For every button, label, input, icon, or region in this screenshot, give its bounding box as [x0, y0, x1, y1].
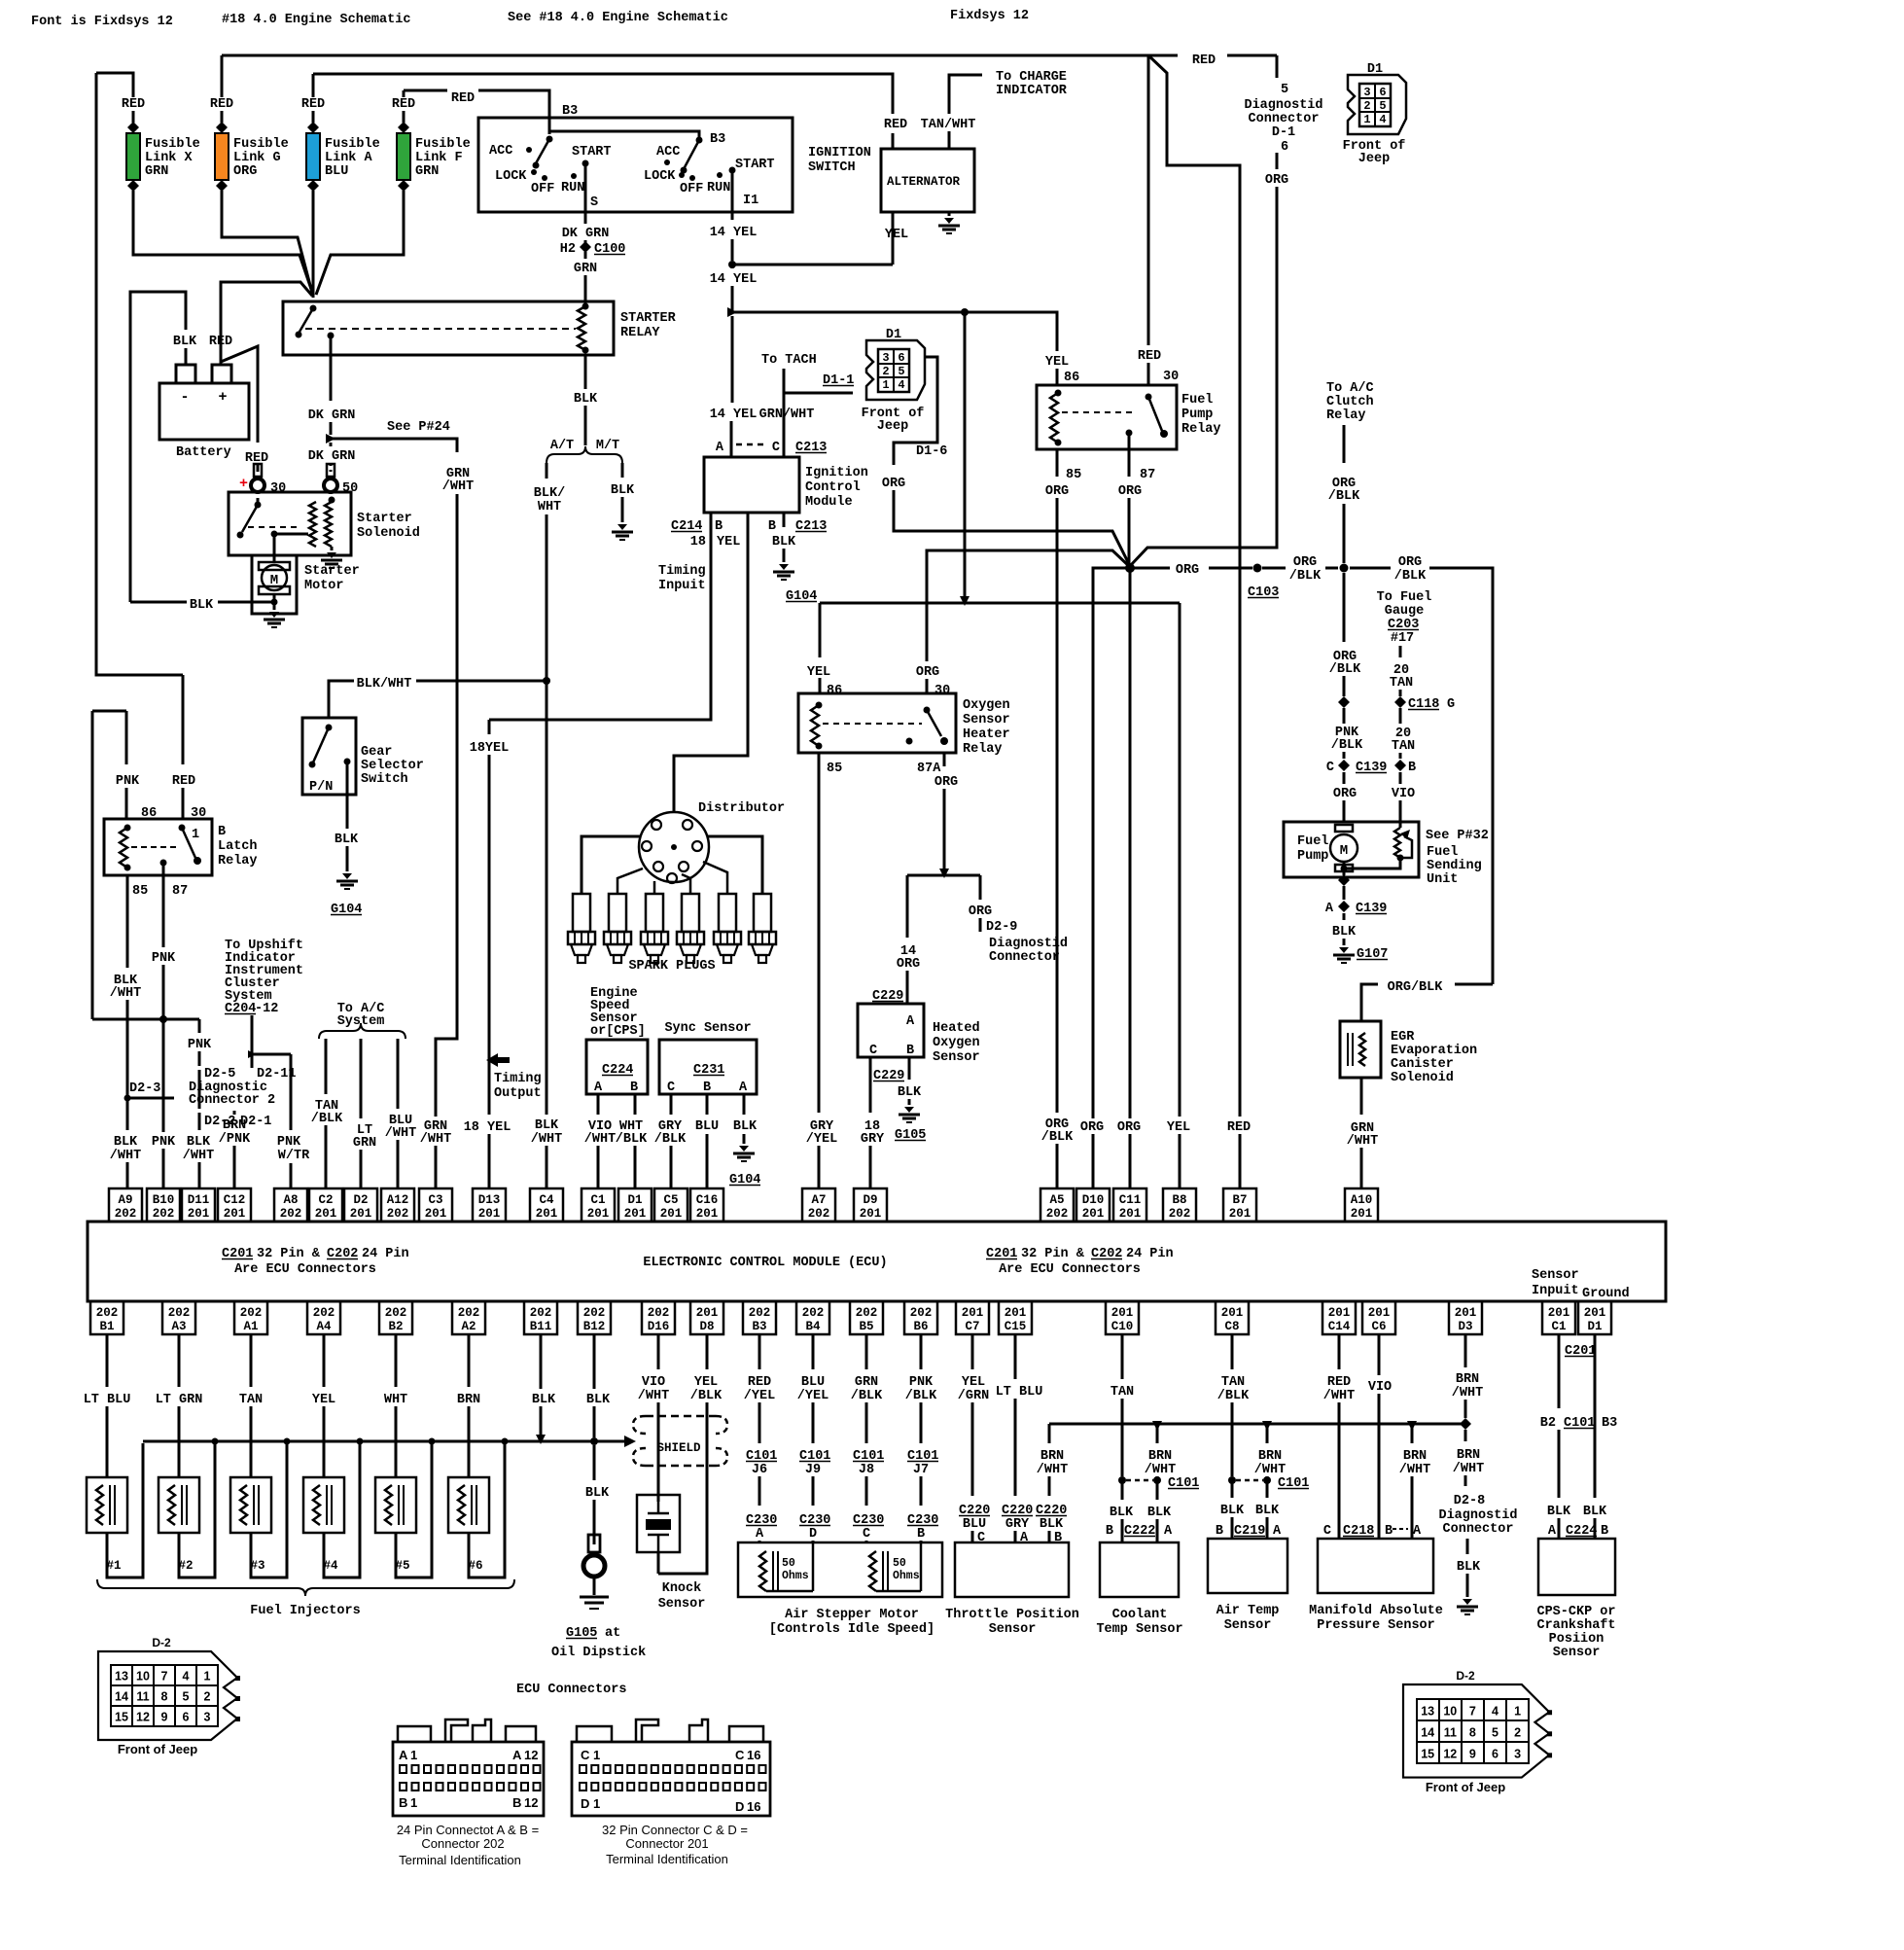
alternator box	[881, 149, 974, 212]
wire RED to ECU B7	[1148, 55, 1240, 1117]
svg-text:RED: RED	[451, 91, 475, 106]
svg-text:Connector: Connector	[1249, 112, 1320, 126]
svg-text:Output: Output	[494, 1086, 542, 1101]
svg-text:202: 202	[802, 1306, 825, 1320]
wire YEL to injector #4	[323, 1334, 326, 1387]
svg-text:C1: C1	[1551, 1320, 1566, 1333]
svg-text:5: 5	[1492, 1725, 1499, 1739]
svg-text:A10: A10	[1351, 1193, 1373, 1207]
connector D-2 outline	[98, 1651, 237, 1740]
svg-text:6: 6	[1492, 1747, 1499, 1760]
svg-text:/BLK: /BLK	[690, 1389, 723, 1403]
connector D-2 grid	[1417, 1699, 1439, 1720]
svg-text:ECU Connectors: ECU Connectors	[516, 1683, 626, 1697]
wire WHT to injector #5	[395, 1334, 398, 1387]
ECU connector box 201 D3	[1449, 1301, 1482, 1334]
svg-text:C: C	[667, 1081, 675, 1095]
svg-text:B: B	[1408, 761, 1416, 775]
svg-text:C6: C6	[1371, 1320, 1386, 1333]
ECU connector box 201 D1	[1578, 1301, 1611, 1334]
svg-text:Oxygen: Oxygen	[963, 698, 1010, 713]
wire distributor to plug 6	[707, 836, 762, 894]
svg-text:RELAY: RELAY	[620, 326, 660, 340]
svg-text:12: 12	[524, 1795, 538, 1810]
svg-text:VIO: VIO	[642, 1375, 665, 1390]
svg-text:201: 201	[1351, 1207, 1373, 1221]
svg-text:D8: D8	[699, 1320, 714, 1333]
svg-text:B: B	[715, 519, 723, 534]
ground starter solenoid	[331, 547, 334, 550]
node fuel pump relay 87	[1126, 430, 1133, 437]
shield (dashed)	[646, 1416, 716, 1466]
wire link A top	[312, 74, 315, 97]
svg-text:BLK: BLK	[585, 1486, 610, 1501]
svg-text:A9: A9	[118, 1193, 132, 1207]
svg-text:BLK: BLK	[1040, 1517, 1064, 1532]
svg-text:YEL: YEL	[312, 1393, 335, 1407]
svg-text:#18 4.0 Engine Schematic: #18 4.0 Engine Schematic	[222, 13, 410, 27]
svg-text:85: 85	[827, 762, 842, 776]
coolant temp sensor box	[1100, 1542, 1179, 1597]
svg-text:-: -	[180, 389, 189, 406]
svg-text:WHT: WHT	[384, 1393, 407, 1407]
svg-text:PNK: PNK	[152, 1135, 176, 1150]
svg-text:C4: C4	[539, 1193, 554, 1207]
wire GRN/WHT from EGR to ECU A10	[1360, 1078, 1363, 1115]
spark plug at x=635	[609, 894, 626, 932]
wire I1 continues down to ICM pin A	[731, 316, 734, 403]
svg-text:201: 201	[1455, 1306, 1477, 1320]
svg-text:Jeep: Jeep	[877, 419, 908, 434]
svg-text:BLK: BLK	[898, 1085, 922, 1100]
wire GRY/BLK to ECU C5	[670, 1094, 673, 1115]
svg-text:B: B	[1385, 1524, 1393, 1539]
svg-text:B: B	[399, 1795, 407, 1810]
svg-text:ORG: ORG	[934, 775, 958, 790]
ring terminal G105 at oil dipstick	[588, 1535, 600, 1552]
svg-text:TAN: TAN	[239, 1393, 263, 1407]
starter motor box	[252, 555, 297, 614]
svg-text:ORG: ORG	[1117, 1120, 1141, 1135]
svg-text:/WHT: /WHT	[1452, 1386, 1483, 1400]
svg-text:Sensor: Sensor	[963, 713, 1010, 727]
svg-text:C: C	[581, 1748, 590, 1762]
svg-text:BLK: BLK	[114, 1135, 138, 1150]
svg-text:Front of Jeep: Front of Jeep	[1426, 1780, 1505, 1794]
svg-text:10: 10	[136, 1670, 150, 1684]
ECU connector box C11 201	[1113, 1188, 1146, 1222]
ECU connector box D1 201	[618, 1188, 652, 1222]
svg-text:B: B	[218, 825, 226, 839]
svg-text:Jeep: Jeep	[1358, 152, 1390, 166]
svg-text:OFF: OFF	[531, 182, 554, 196]
svg-text:2: 2	[204, 1690, 211, 1704]
svg-text:ORG: ORG	[897, 957, 920, 972]
wire 14 ORG branch to heated oxygen sensor	[906, 875, 909, 938]
svg-text:/BLK: /BLK	[905, 1389, 937, 1403]
wire BRN to injector #6	[468, 1334, 471, 1387]
svg-text:C12: C12	[224, 1193, 246, 1207]
svg-text:201: 201	[315, 1207, 337, 1221]
wire link X bottom to convergence	[133, 200, 313, 295]
svg-text:/WHT: /WHT	[1323, 1389, 1355, 1403]
wire B latch 87 PNK down	[162, 863, 165, 947]
svg-text:Crankshaft: Crankshaft	[1536, 1618, 1615, 1633]
svg-text:GRN/WHT: GRN/WHT	[759, 408, 815, 422]
svg-text:1: 1	[882, 378, 889, 392]
svg-text:Terminal Identification: Terminal Identification	[606, 1852, 728, 1866]
svg-text:Inpuit: Inpuit	[658, 579, 706, 593]
svg-text:B: B	[1216, 1524, 1223, 1539]
svg-text:/WHT: /WHT	[1399, 1463, 1430, 1477]
svg-text:6: 6	[898, 351, 904, 365]
svg-text:201: 201	[1221, 1306, 1244, 1320]
svg-text:DK GRN: DK GRN	[308, 408, 356, 423]
node D2-3 stub	[124, 1095, 131, 1102]
sync sensor box C231	[659, 1040, 757, 1094]
svg-text:To CHARGE: To CHARGE	[996, 70, 1067, 85]
svg-text:6: 6	[1281, 140, 1288, 155]
oxygen relay switch 30-87A	[924, 707, 931, 714]
svg-text:Timing: Timing	[658, 564, 706, 579]
wire top feed 1 (link G to RED diag connector)	[222, 54, 1178, 57]
svg-text:14 YEL: 14 YEL	[710, 226, 758, 240]
ECU connector box A10 201	[1345, 1188, 1378, 1222]
node 14YEL main junction	[727, 307, 737, 317]
svg-text:+: +	[218, 389, 227, 406]
svg-text:/WHT: /WHT	[110, 1149, 141, 1163]
ground alternator	[948, 212, 951, 216]
svg-text:P/N: P/N	[309, 780, 333, 795]
svg-text:201: 201	[1328, 1306, 1351, 1320]
ECU connector box 202 B11	[524, 1301, 557, 1334]
svg-text:D11: D11	[188, 1193, 210, 1207]
svg-text:12: 12	[524, 1748, 538, 1762]
oxygen relay dashed link	[823, 723, 922, 725]
wire BLK from ECU B12 to ground G105	[593, 1334, 596, 1389]
wire ORG junction down to ECU C11	[1129, 568, 1132, 1118]
wire diagnostic connector D-1 pin5 drop	[1276, 55, 1279, 78]
ignition switch 2 contacts	[696, 137, 703, 144]
svg-text:RED: RED	[301, 97, 325, 112]
label Timing Output with arrow	[486, 1053, 510, 1067]
svg-text:YEL: YEL	[694, 1375, 718, 1390]
svg-text:See P#24: See P#24	[387, 420, 450, 435]
spark plug at x=710	[682, 894, 699, 932]
svg-text:Terminal Identification: Terminal Identification	[399, 1853, 521, 1867]
svg-text:BLK: BLK	[190, 598, 214, 613]
svg-text:PNK: PNK	[116, 774, 140, 789]
svg-text:BLK/WHT: BLK/WHT	[357, 677, 412, 691]
svg-text:24 Pin: 24 Pin	[362, 1247, 409, 1261]
svg-text:Clutch: Clutch	[1326, 395, 1374, 409]
svg-text:Ohms: Ohms	[893, 1570, 920, 1582]
svg-text:Fuel: Fuel	[1427, 845, 1458, 860]
ECU connector box D10 201	[1076, 1188, 1110, 1222]
starter relay switch arm	[310, 305, 317, 312]
ECU connector box 202 B5	[850, 1301, 883, 1334]
starter solenoid dashed link	[248, 526, 297, 528]
svg-text:Fusible: Fusible	[325, 137, 380, 152]
svg-text:B12: B12	[583, 1320, 606, 1333]
svg-text:ELECTRONIC CONTROL MODULE (ECU: ELECTRONIC CONTROL MODULE (ECU)	[643, 1256, 887, 1270]
svg-text:5: 5	[898, 365, 904, 378]
fuel injector #3	[230, 1477, 271, 1533]
svg-text:201: 201	[350, 1207, 372, 1221]
svg-text:/BLK: /BLK	[1329, 662, 1361, 677]
wire BLU/YEL to air stepper D	[812, 1334, 815, 1369]
wire distributor to plug 3	[653, 881, 656, 894]
wire BRN/WHT branch to MAP A	[1411, 1424, 1414, 1443]
fuel injector #6	[448, 1477, 489, 1533]
svg-text:BLK: BLK	[1110, 1506, 1134, 1520]
node BLK B12 crossing bus	[590, 1437, 598, 1445]
svg-text:/WHT: /WHT	[1254, 1463, 1286, 1477]
svg-text:1: 1	[1363, 113, 1370, 126]
svg-text:1: 1	[192, 828, 199, 842]
svg-text:VIO: VIO	[1392, 787, 1415, 801]
svg-text:13: 13	[115, 1670, 128, 1684]
svg-text:/BLK: /BLK	[1217, 1389, 1250, 1403]
svg-text:B: B	[703, 1081, 711, 1095]
svg-text:BLU: BLU	[963, 1517, 986, 1532]
svg-text:RED: RED	[392, 97, 415, 112]
wire GRN to starter relay coil	[584, 240, 587, 304]
node PNK junction	[159, 1015, 167, 1023]
svg-text:SHIELD: SHIELD	[656, 1441, 701, 1455]
svg-text:/BLK: /BLK	[616, 1132, 648, 1147]
svg-text:To TACH: To TACH	[761, 353, 817, 368]
svg-text:D: D	[809, 1527, 817, 1542]
node solenoid output to motor	[271, 531, 278, 538]
wire from ECU D1 bottom to CPS B	[1594, 1334, 1597, 1498]
svg-text:Pump: Pump	[1181, 408, 1213, 422]
starter motor M	[259, 562, 290, 570]
ECU connector box 201 C7	[956, 1301, 989, 1334]
svg-text:YEL: YEL	[885, 228, 908, 242]
wire injector #1 return to bus	[107, 1443, 143, 1578]
wire link F bottom to convergence	[316, 200, 404, 295]
svg-text:Fixdsys 12: Fixdsys 12	[950, 9, 1029, 23]
svg-text:Fuel Injectors: Fuel Injectors	[250, 1604, 360, 1618]
svg-text:#3: #3	[250, 1559, 264, 1573]
svg-text:DK GRN: DK GRN	[308, 449, 356, 464]
svg-text:BLK: BLK	[173, 335, 197, 349]
ECU connector box A12 202	[381, 1188, 414, 1222]
knock sensor	[637, 1495, 680, 1552]
wire ICM pin B C214 timing input	[489, 513, 711, 720]
wire GRN/WHT to ICM pin C	[783, 393, 786, 458]
svg-text:BLU: BLU	[801, 1375, 825, 1390]
wire injector #6 return to bus	[469, 1443, 505, 1578]
svg-text:RUN: RUN	[561, 181, 584, 195]
svg-text:50: 50	[782, 1557, 795, 1570]
svg-text:A4: A4	[316, 1320, 332, 1333]
node 87A split junction	[939, 869, 949, 878]
svg-text:Sensor: Sensor	[1553, 1646, 1601, 1660]
ECU connector box 202 A2	[452, 1301, 485, 1334]
svg-text:16: 16	[747, 1799, 760, 1814]
svg-text:A5: A5	[1049, 1193, 1064, 1207]
svg-text:A: A	[1164, 1524, 1173, 1539]
svg-text:/WHT: /WHT	[638, 1389, 669, 1403]
svg-text:A2: A2	[461, 1320, 476, 1333]
svg-text:Link X: Link X	[145, 151, 194, 165]
svg-text:YEL: YEL	[1167, 1120, 1190, 1135]
svg-text:ORG: ORG	[882, 477, 905, 491]
oxygen relay coil	[816, 702, 823, 709]
svg-text:201: 201	[696, 1207, 719, 1221]
wire link G top	[221, 55, 224, 97]
svg-text:Connector: Connector	[989, 950, 1060, 965]
svg-text:GRY: GRY	[861, 1132, 885, 1147]
svg-text:PNK: PNK	[152, 951, 176, 966]
wire VIO from ECU C6 to MAP	[1378, 1334, 1381, 1375]
svg-text:LOCK: LOCK	[495, 169, 527, 184]
svg-text:Relay: Relay	[218, 854, 258, 869]
svg-text:STARTER: STARTER	[620, 311, 677, 326]
svg-text:/BLK: /BLK	[1041, 1130, 1074, 1145]
24 pin connector 202 terminal diagram	[393, 1742, 544, 1816]
svg-text:B4: B4	[805, 1320, 821, 1333]
svg-text:PNK: PNK	[277, 1135, 301, 1150]
node See P#24 junction	[326, 434, 335, 443]
svg-text:RED: RED	[1227, 1120, 1251, 1135]
svg-text:/WHT: /WHT	[1145, 1463, 1176, 1477]
svg-text:YEL: YEL	[1045, 355, 1069, 370]
svg-text:Diagnostid: Diagnostid	[1438, 1508, 1517, 1523]
svg-text:201: 201	[425, 1207, 447, 1221]
wire injector #2 return to bus	[179, 1443, 215, 1578]
svg-text:B2: B2	[388, 1320, 403, 1333]
wire BLK gear selector to ground G104	[346, 762, 349, 829]
svg-text:TAN: TAN	[1221, 1375, 1245, 1390]
svg-text:201: 201	[1368, 1306, 1391, 1320]
svg-text:Link A: Link A	[325, 151, 373, 165]
svg-text:ACC: ACC	[489, 144, 512, 159]
svg-text:RED: RED	[1192, 53, 1216, 68]
svg-text:B: B	[1106, 1524, 1113, 1539]
svg-text:A: A	[739, 1081, 748, 1095]
svg-text:202: 202	[280, 1207, 302, 1221]
svg-text:ORG: ORG	[916, 665, 939, 680]
svg-text:BLU: BLU	[325, 164, 348, 179]
svg-text:9: 9	[161, 1711, 168, 1724]
svg-text:YEL: YEL	[962, 1375, 985, 1390]
svg-text:6: 6	[1379, 86, 1386, 99]
svg-text:3: 3	[882, 351, 889, 365]
wire battery positive feed to convergence	[221, 282, 312, 362]
svg-text:85: 85	[132, 884, 148, 899]
svg-text:30: 30	[270, 481, 286, 496]
svg-text:13: 13	[1421, 1704, 1434, 1718]
CPS-CKP sensor box	[1538, 1539, 1615, 1595]
svg-text:202: 202	[458, 1306, 480, 1320]
svg-text:Gauge: Gauge	[1385, 604, 1425, 619]
svg-text:24 Pin Connectot A & B =: 24 Pin Connectot A & B =	[397, 1823, 539, 1837]
wire top feed 2 (link A to alternator RED)	[313, 74, 893, 114]
svg-text:PNK: PNK	[188, 1038, 212, 1052]
wire RED/WHT from ECU C14 to MAP C	[1338, 1334, 1341, 1369]
svg-text:C: C	[1323, 1524, 1331, 1539]
svg-text:ORG: ORG	[1293, 555, 1317, 570]
svg-text:SPARK PLUGS: SPARK PLUGS	[628, 959, 715, 974]
svg-text:D2-8: D2-8	[1454, 1494, 1485, 1508]
svg-text:30: 30	[191, 806, 206, 821]
ECU connector box D13 201	[473, 1188, 506, 1222]
svg-text:See #18 4.0 Engine Schematic: See #18 4.0 Engine Schematic	[508, 11, 728, 25]
svg-text:Connector: Connector	[1443, 1522, 1514, 1537]
svg-text:201: 201	[478, 1207, 501, 1221]
svg-text:202: 202	[749, 1306, 771, 1320]
wire distributor to plug 4	[682, 874, 690, 894]
svg-text:/YEL: /YEL	[744, 1389, 775, 1403]
ECU connector box 201 D8	[690, 1301, 723, 1334]
svg-text:Module: Module	[805, 495, 853, 510]
svg-text:15: 15	[115, 1711, 128, 1724]
svg-text:C: C	[869, 1044, 877, 1058]
svg-text:GRY: GRY	[1005, 1517, 1030, 1532]
svg-text:Ground: Ground	[1582, 1287, 1630, 1301]
svg-text:BLK: BLK	[1457, 1560, 1481, 1575]
svg-text:Canister: Canister	[1391, 1057, 1454, 1072]
wire ignition switch 1 S output	[584, 163, 587, 212]
svg-text:M: M	[1340, 843, 1348, 859]
svg-text:202: 202	[153, 1207, 175, 1221]
svg-text:GRN: GRN	[145, 164, 168, 179]
svg-text:W/TR: W/TR	[278, 1149, 310, 1163]
svg-text:VIO: VIO	[1368, 1380, 1392, 1395]
svg-text:87: 87	[1140, 468, 1155, 482]
node YEL junction to alternator	[728, 261, 736, 268]
svg-text:C3: C3	[428, 1193, 442, 1207]
wire BLK to ground (D2-8)	[1466, 1539, 1469, 1554]
svg-text:Connector 202: Connector 202	[421, 1836, 504, 1851]
svg-text:D9: D9	[863, 1193, 877, 1207]
svg-text:BLK: BLK	[586, 1393, 611, 1407]
svg-text:BLK: BLK	[187, 1135, 211, 1150]
svg-text:2: 2	[1363, 99, 1370, 113]
svg-text:202: 202	[115, 1207, 137, 1221]
ECU connector box 202 A3	[162, 1301, 195, 1334]
svg-text:Latch: Latch	[218, 839, 258, 854]
svg-text:14 YEL: 14 YEL	[710, 272, 758, 287]
wire YEL/GRN to TPS C	[971, 1334, 974, 1369]
wire BLU/WHT to ECU A12	[397, 1039, 400, 1109]
svg-text:TAN: TAN	[1392, 739, 1415, 754]
ECU connector box D9 201	[854, 1188, 887, 1222]
starter solenoid coils	[309, 502, 316, 547]
ignition switch 2 B3 wire	[549, 131, 699, 140]
svg-text:I1: I1	[743, 194, 758, 208]
svg-text:RED: RED	[122, 97, 145, 112]
ignition switch box	[478, 118, 793, 212]
svg-text:202: 202	[313, 1306, 335, 1320]
svg-text:#6: #6	[468, 1559, 482, 1573]
svg-text:B1: B1	[99, 1320, 114, 1333]
ECU connector box C3 201	[419, 1188, 452, 1222]
ECU connector box A9 202	[109, 1188, 142, 1222]
svg-text:B3: B3	[1602, 1416, 1617, 1431]
svg-text:LOCK: LOCK	[644, 169, 676, 184]
ECU connector box C16 201	[690, 1188, 723, 1222]
ECU connector box C12 201	[218, 1188, 251, 1222]
brace Fuel Injectors	[97, 1579, 514, 1596]
svg-text:D2-9: D2-9	[986, 920, 1017, 935]
manifold absolute pressure sensor box	[1318, 1539, 1433, 1593]
svg-text:D1-6: D1-6	[916, 444, 947, 459]
svg-text:EGR: EGR	[1391, 1030, 1415, 1045]
